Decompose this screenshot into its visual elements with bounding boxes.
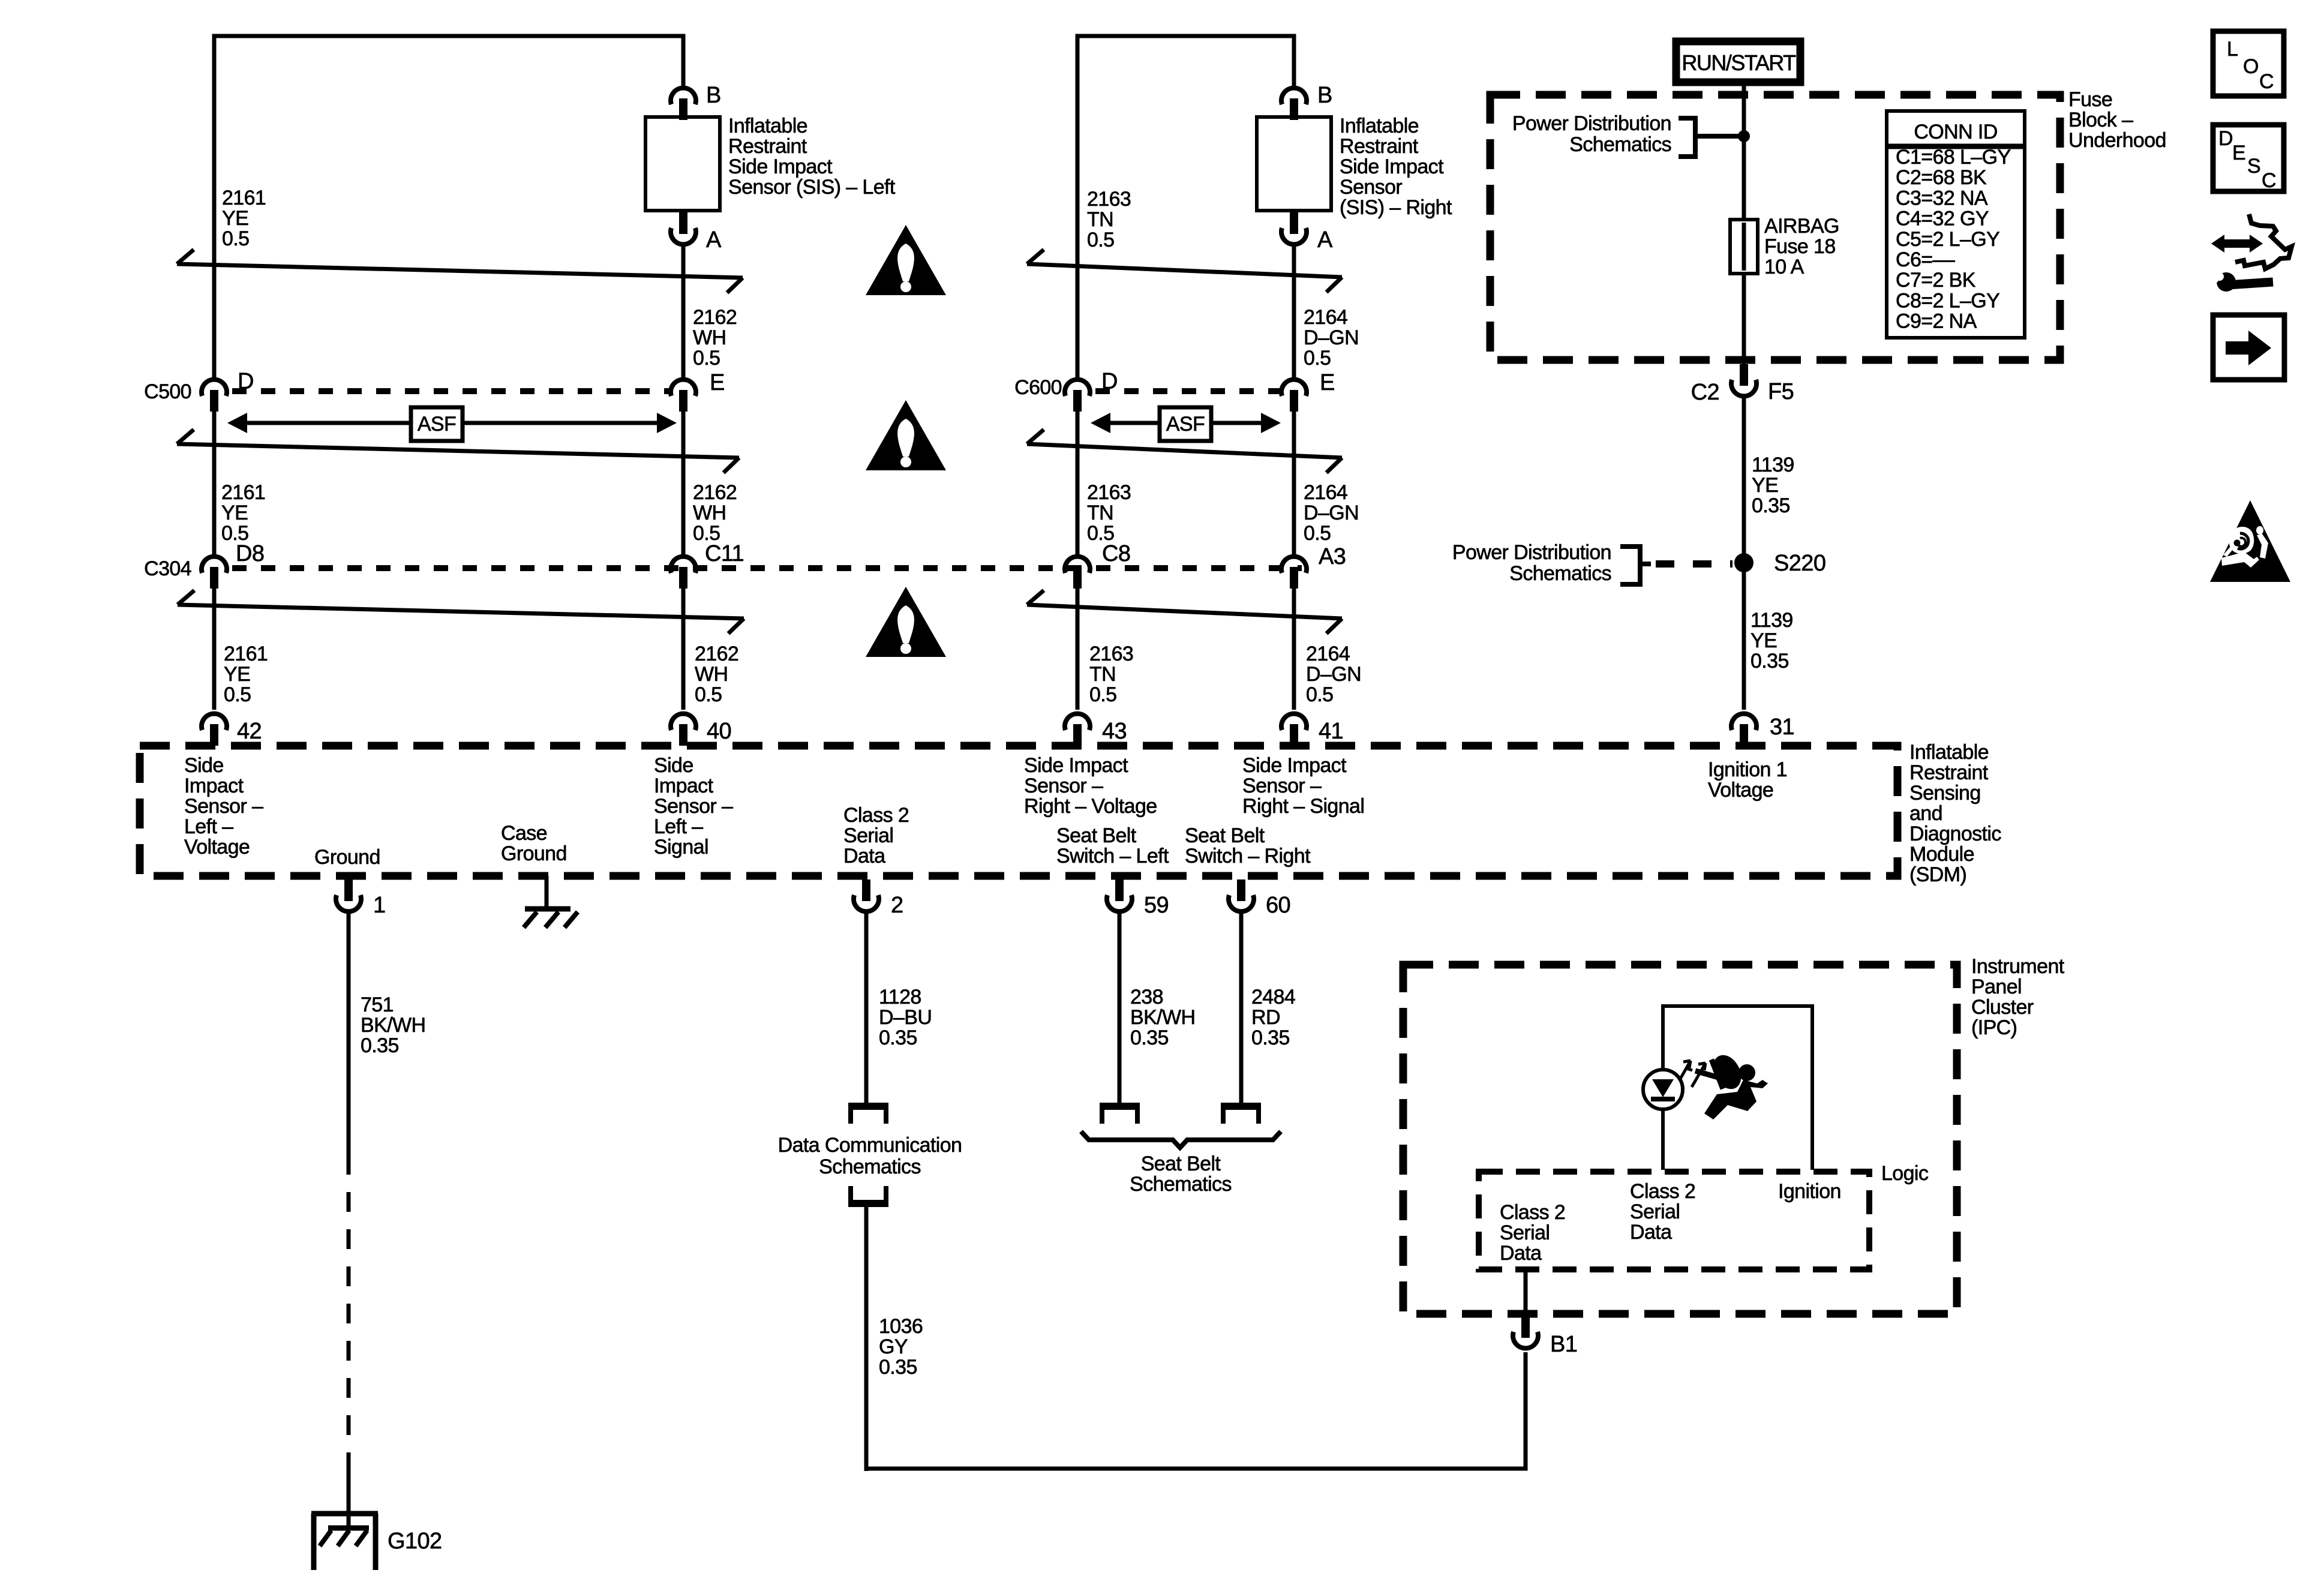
svg-text:FuseBlock –Underhood: FuseBlock –Underhood: [2068, 88, 2166, 152]
svg-text:Seat BeltSchematics: Seat BeltSchematics: [1130, 1152, 1232, 1196]
ASF label box (right): [1160, 407, 1211, 441]
svg-text:C304: C304: [144, 557, 191, 580]
svg-text:InflatableRestraintSide Impact: InflatableRestraintSide ImpactSensor (SI…: [728, 115, 896, 199]
SDM connector pin 42: [202, 714, 227, 746]
junction dot on ignition feed: [1738, 130, 1750, 142]
inflatable restraint sensing and diagnostic module (SDM) dashed box: [140, 746, 1897, 876]
connector C600 pin D: [1065, 380, 1090, 412]
wire: fuse to C2 connector: [1742, 274, 1746, 365]
logic dashed box (IPC): [1479, 1172, 1869, 1269]
wire: 1139 YE from S220 to SDM pin 31: [1742, 563, 1746, 710]
airbag indicator logic box (solid): [1663, 1006, 1812, 1170]
svg-text:L: L: [2227, 38, 2238, 61]
IPC connector pin B1: [1513, 1316, 1538, 1348]
SDM connector pin 2 (class 2 serial data): [854, 879, 879, 911]
airbag warning pictograph (IPC): [1695, 1050, 1768, 1119]
svg-text:E: E: [710, 370, 725, 395]
svg-text:Power DistributionSchematics: Power DistributionSchematics: [1512, 112, 1671, 156]
svg-text:B: B: [1317, 83, 1332, 108]
svg-text:41: 41: [1319, 719, 1343, 744]
svg-text:2161YE0.5: 2161YE0.5: [224, 643, 268, 706]
inline connector C600 dashed line: [1095, 388, 1280, 394]
svg-text:Side ImpactSensor –Right – Sig: Side ImpactSensor –Right – Signal: [1242, 754, 1364, 818]
wire: 2164 D-GN from A3 to SDM pin 41: [1292, 589, 1296, 710]
svg-text:S220: S220: [1774, 551, 1825, 576]
connector C304 pin D8: [202, 557, 227, 589]
airbag caution triangle: [2210, 500, 2290, 582]
svg-text:Logic: Logic: [1881, 1162, 1929, 1185]
wire crossing marker left upper: [177, 250, 743, 293]
svg-text:751BK/WH0.35: 751BK/WH0.35: [361, 993, 425, 1057]
svg-text:42: 42: [237, 719, 262, 744]
warning triangle 1: [866, 225, 946, 295]
wire: 2163 TN between C600 and C304-C8: [1076, 412, 1080, 558]
svg-text:SideImpactSensor –Left –Signal: SideImpactSensor –Left –Signal: [654, 754, 733, 858]
svg-text:1139YE0.35: 1139YE0.35: [1752, 454, 1794, 517]
SDM connector pin 40: [671, 714, 696, 746]
wire: RUN/START to fuse block: [1742, 86, 1746, 220]
svg-text:F5: F5: [1768, 379, 1794, 404]
svg-text:S: S: [2247, 155, 2260, 178]
svg-text:C: C: [2259, 70, 2274, 93]
svg-text:C11: C11: [705, 541, 744, 566]
wire: 2164 D-GN between C600 and C304-A3: [1292, 412, 1296, 558]
SDM connector pin 60 (seat belt switch right): [1229, 879, 1254, 911]
bracket to power distribution schematics (S220): [1620, 547, 1651, 584]
svg-text:AIRBAGFuse 1810 A: AIRBAGFuse 1810 A: [1764, 215, 1839, 278]
wire: 2161 YE from C304 to SDM pin 42: [212, 589, 217, 710]
connector C600 pin E: [1281, 380, 1307, 412]
svg-text:Class 2SerialData: Class 2SerialData: [1630, 1180, 1695, 1244]
svg-text:C600: C600: [1014, 376, 1062, 399]
svg-text:2161YE0.5: 2161YE0.5: [221, 481, 265, 545]
wire: 751 BK/WH solid segment: [347, 913, 351, 1155]
wire: 2162 WH from C304 to SDM pin 40: [681, 589, 686, 710]
svg-text:2162WH0.5: 2162WH0.5: [693, 481, 737, 545]
svg-text:A3: A3: [1319, 544, 1346, 569]
SDM connector pin 31: [1731, 714, 1756, 746]
svg-text:InstrumentPanelCluster(IPC): InstrumentPanelCluster(IPC): [1971, 955, 2065, 1039]
svg-text:RUN/START: RUN/START: [1682, 50, 1796, 75]
case ground symbol (SDM): [524, 876, 578, 927]
wire: right sensor loop (2163 TN top / 2164 D-GN top): [1077, 36, 1294, 380]
svg-text:1: 1: [373, 893, 386, 918]
off-page bracket to data communication schematics (top): [848, 1105, 888, 1124]
svg-text:D: D: [2218, 127, 2233, 150]
wire: 2484 RD from pin 60: [1239, 913, 1244, 1103]
svg-text:1139YE0.35: 1139YE0.35: [1750, 609, 1793, 673]
svg-text:Side ImpactSensor –Right – Vol: Side ImpactSensor –Right – Voltage: [1024, 754, 1157, 818]
connector C500 pin E: [671, 380, 696, 412]
wire: 2164 D-GN from A to C600-E: [1292, 246, 1296, 378]
splice S220: [1734, 553, 1753, 572]
dashed reference line to S220: [1656, 560, 1733, 568]
svg-text:43: 43: [1102, 719, 1127, 744]
svg-text:2164D–GN0.5: 2164D–GN0.5: [1304, 306, 1359, 370]
ASF label box (left): [411, 407, 463, 441]
wire: 751 BK/WH dashed segment: [347, 1155, 351, 1471]
connector C304 pin A3: [1281, 557, 1307, 589]
brace: seat belt schematics: [1081, 1131, 1281, 1148]
svg-text:Ignition 1Voltage: Ignition 1Voltage: [1708, 758, 1787, 801]
wire: 1128 D-BU from pin 2: [864, 913, 869, 1103]
LOC legend box: [2213, 31, 2284, 96]
fuse block underhood dashed box: [1490, 95, 2060, 360]
inflatable restraint side impact sensor (SIS) right: [1257, 117, 1331, 211]
instrument panel cluster (IPC) dashed box: [1403, 965, 1957, 1314]
svg-text:Data CommunicationSchematics: Data CommunicationSchematics: [778, 1134, 962, 1178]
wire crossing marker right lower: [1027, 590, 1342, 634]
connector pin A (SIS left): [671, 212, 696, 244]
terminal bracket (seat belt right): [1221, 1105, 1261, 1124]
connector pin A (SIS right): [1281, 212, 1307, 244]
svg-text:2484RD0.35: 2484RD0.35: [1251, 986, 1295, 1049]
wire: 1139 YE from C2 to S220: [1742, 398, 1746, 563]
svg-text:Ground: Ground: [314, 846, 380, 869]
fuse: AIRBAG Fuse 18 10A: [1730, 220, 1758, 274]
svg-text:B1: B1: [1550, 1332, 1577, 1357]
inflatable restraint side impact sensor (SIS) left: [645, 117, 720, 211]
svg-text:C2: C2: [1691, 380, 1719, 405]
svg-text:B: B: [706, 83, 721, 108]
svg-text:59: 59: [1144, 893, 1169, 918]
inline connector C304 dashed line: [232, 565, 1302, 571]
bracket to power distribution schematics (fuse block): [1679, 118, 1742, 157]
wire crossing marker left lower: [178, 590, 744, 634]
svg-text:2: 2: [891, 893, 903, 918]
service icon: wrench and connector outline: [2208, 214, 2292, 292]
inline connector C500 dashed line: [232, 388, 669, 394]
wire: 2162 WH between C500 and C304: [681, 412, 686, 558]
CONN ID table: [1887, 111, 2025, 338]
svg-text:D8: D8: [236, 541, 264, 566]
warning triangle 3: [866, 587, 946, 657]
svg-text:2162WH0.5: 2162WH0.5: [693, 306, 737, 370]
connector pin B (SIS left): [671, 88, 696, 120]
DESC legend box: [2213, 125, 2284, 192]
off-page bracket from data communication schematics (bottom): [848, 1186, 888, 1205]
svg-text:2162WH0.5: 2162WH0.5: [695, 643, 738, 706]
svg-text:C500: C500: [144, 380, 191, 403]
SDM connector pin 1 (ground): [336, 879, 361, 911]
svg-text:G102: G102: [388, 1529, 442, 1554]
go-to arrow legend box: [2213, 315, 2284, 380]
svg-text:60: 60: [1266, 893, 1290, 918]
connector C2 pin F5: [1731, 364, 1756, 396]
svg-text:A: A: [706, 227, 722, 253]
svg-text:2163TN0.5: 2163TN0.5: [1087, 188, 1131, 251]
svg-text:CaseGround: CaseGround: [501, 822, 567, 865]
svg-text:2163TN0.5: 2163TN0.5: [1087, 481, 1131, 545]
wire: 2162 WH from A to C500-E: [681, 246, 686, 378]
svg-text:Class 2SerialData: Class 2SerialData: [1500, 1201, 1565, 1265]
wire: 238 BK/WH from pin 59: [1118, 913, 1122, 1103]
wire: 2163 TN from C8 to SDM pin 43: [1076, 589, 1080, 710]
svg-text:Ignition: Ignition: [1778, 1180, 1841, 1203]
connector C500 pin D: [202, 380, 227, 412]
svg-text:E: E: [2232, 142, 2245, 164]
SDM connector pin 43: [1065, 714, 1090, 746]
svg-text:40: 40: [707, 719, 731, 744]
ground G102 symbol: [311, 1514, 378, 1570]
connector C304 pin C8: [1065, 557, 1090, 589]
svg-text:Class 2SerialData: Class 2SerialData: [843, 804, 909, 867]
svg-text:Power DistributionSchematics: Power DistributionSchematics: [1452, 541, 1611, 585]
svg-text:InflatableRestraintSensingandD: InflatableRestraintSensingandDiagnosticM…: [1909, 741, 2001, 886]
svg-text:CONN ID: CONN ID: [1914, 121, 1997, 143]
svg-text:1036GY0.35: 1036GY0.35: [879, 1315, 923, 1379]
svg-text:Seat BeltSwitch – Right: Seat BeltSwitch – Right: [1185, 824, 1311, 867]
wire: 2161 YE between C500 and C304: [212, 412, 217, 558]
ASF splice arrow (left): [227, 413, 677, 433]
svg-text:2163TN0.5: 2163TN0.5: [1089, 643, 1133, 706]
svg-text:C: C: [2262, 169, 2276, 192]
svg-text:2164D–GN0.5: 2164D–GN0.5: [1304, 481, 1359, 545]
svg-text:Seat BeltSwitch – Left: Seat BeltSwitch – Left: [1056, 824, 1169, 867]
ASF splice arrow (right): [1091, 413, 1281, 433]
svg-text:SideImpactSensor –Left –Voltag: SideImpactSensor –Left –Voltage: [184, 754, 263, 858]
wire: class 2 serial data to IPC pin B1: [1524, 1269, 1528, 1317]
svg-text:ASF: ASF: [1166, 413, 1205, 436]
svg-text:E: E: [1320, 370, 1335, 395]
warning triangle 2: [866, 400, 946, 470]
wire: 1036 GY horizontal run to IPC B1: [866, 1352, 1526, 1469]
wire crossing marker left middle: [177, 430, 739, 473]
svg-text:31: 31: [1770, 715, 1794, 740]
wire: left sensor loop (2161 YE top / 2162 WH top): [214, 36, 683, 380]
wire: 751 BK/WH to G102: [347, 1471, 351, 1530]
wire crossing marker right upper: [1027, 250, 1342, 292]
LED indicator symbol: [1643, 1061, 1707, 1170]
svg-text:InflatableRestraintSide Impact: InflatableRestraintSide ImpactSensor(SIS…: [1340, 115, 1452, 219]
terminal bracket (seat belt left): [1100, 1105, 1140, 1124]
wire: 1036 GY down from schematics reference: [864, 1205, 869, 1471]
SDM connector pin 41: [1281, 714, 1307, 746]
svg-text:1128D–BU0.35: 1128D–BU0.35: [879, 986, 932, 1049]
svg-text:2161YE0.5: 2161YE0.5: [222, 187, 266, 250]
svg-text:C8: C8: [1102, 541, 1130, 566]
svg-text:2164D–GN0.5: 2164D–GN0.5: [1306, 643, 1361, 706]
connector C304 pin C11: [671, 557, 696, 589]
connector pin B (SIS right): [1281, 88, 1307, 120]
svg-text:238BK/WH0.35: 238BK/WH0.35: [1130, 986, 1195, 1049]
RUN/START voltage source box: [1676, 41, 1800, 82]
svg-text:A: A: [1317, 227, 1333, 253]
svg-text:ASF: ASF: [418, 413, 456, 436]
SDM connector pin 59 (seat belt switch left): [1107, 879, 1132, 911]
svg-text:O: O: [2243, 55, 2259, 78]
wire crossing marker right middle: [1027, 430, 1342, 473]
